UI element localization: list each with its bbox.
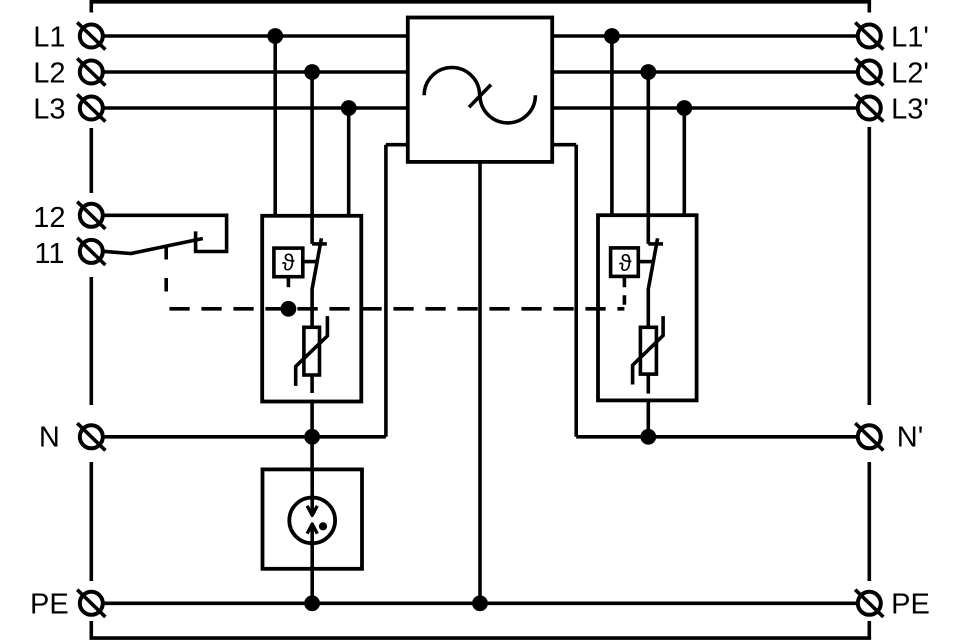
remote contact blade from 11 [104,239,202,254]
terminal PE right [855,590,883,617]
varistor RU2 body [640,327,656,374]
SPD block 2 box [598,215,697,400]
node L3 tap [341,100,357,116]
svg-text:PE: PE [30,589,69,621]
SPD1 sensor link to blade [303,260,317,264]
svg-text:L3': L3' [891,94,929,126]
SPD1 sensor dashed link down [287,277,291,309]
wire L1' tap down to SPD2 [610,36,614,215]
GDT F1 box [263,469,363,568]
GDT top lead [310,469,314,514]
wire L3 tap down to SPD1 [347,108,351,216]
terminal L2 [77,58,105,85]
node L2' tap [640,64,656,80]
svg-text:N': N' [897,422,923,454]
SPD1 contact blade [312,238,322,290]
varistor RU2 diagonal [633,316,664,384]
svg-text:11: 11 [34,238,64,270]
svg-text:L1': L1' [891,22,929,54]
wire L2 right [552,70,856,74]
wire U1 centre port down to PE [478,162,482,603]
SPD2 thermal contact tick [648,242,663,246]
frame left edge bottom stub [90,621,94,638]
svg-text:N: N [39,421,60,453]
wire L2' tap down through SPD2 to contact [646,72,650,244]
terminal 12 [77,202,105,229]
dashed linkage horizontal [166,307,624,311]
dashed linkage vertical [164,246,168,309]
frame right edge bottom stub [867,621,871,638]
remote contact 12 hook wire [104,215,226,251]
wire U1 right N port stub [552,143,576,147]
wire L1 left [104,34,408,38]
varistor RU1 diagonal [296,316,328,386]
wire U1 left N port stub [386,143,408,147]
node U1 on PE [472,595,488,611]
terminal 11 [77,238,105,265]
svg-text:L2': L2' [891,58,929,90]
svg-text:ϑ: ϑ [282,249,295,275]
svg-text:L2: L2 [33,58,65,90]
SPD2 sensor link to blade [638,260,653,264]
GDT top arrowhead [307,506,317,516]
frame right edge segment L3'-N' [867,127,871,405]
SPD2 sensor dashed link down [623,278,627,309]
frame left edge segment L3-12 [90,128,94,193]
wire L3 right [552,106,856,110]
SPD2 thermal sensor box [611,248,639,277]
wire N' row [576,435,856,439]
frame top edge [90,0,872,4]
wire PE row [104,601,856,605]
filter U1 wave symbol right arc [480,95,535,123]
wire U1 left N port down to N [384,145,388,437]
terminal L1 [77,22,105,49]
GDT bottom arrowhead [307,524,317,534]
node L3' tap [676,100,692,116]
node dashed junction [281,301,297,317]
node GDT on PE [304,595,320,611]
wire L2 tap down through SPD1 to contact [310,72,314,244]
wire L1 tap down to SPD1 [273,36,277,216]
terminal L3 [77,94,105,121]
frame right edge top stub [867,2,871,13]
terminal N [77,423,105,450]
frame bottom edge [90,636,872,640]
wire U1 right N port down to N' [574,145,578,437]
node L2 tap [304,64,320,80]
SPD block 1 box [262,216,361,402]
SPD1 thermal sensor box [274,248,303,277]
GDT circle [289,498,335,544]
SPD1 wire blade to varistor [310,290,314,327]
varistor RU1 body [304,327,320,375]
wire L3 left [104,106,408,110]
svg-text:L3: L3 [33,94,65,126]
wire L1 right [552,34,856,38]
filter U1 wave symbol slash [469,85,491,108]
node L1' tap [604,28,620,44]
wire L3' tap down to SPD2 [682,108,686,215]
filter U1 wave symbol left arc [424,67,479,95]
terminal L1' [855,22,883,49]
svg-text:ϑ: ϑ [619,250,632,276]
SPD2 contact blade [648,238,658,290]
wire L2 left [104,70,408,74]
node SPD1 on N [304,429,320,445]
GDT bottom lead [310,526,314,604]
filter unit U1 box [408,18,552,162]
SPD2 wire blade to varistor [646,290,650,327]
SPD1 wire box edge to GDT [310,400,314,470]
SPD1 wire varistor to box edge [310,375,314,393]
frame left edge segment top stub [90,2,94,13]
svg-text:PE: PE [891,589,930,621]
svg-text:L1: L1 [33,22,65,54]
SPD2 wire varistor to box edge [646,374,650,394]
SPD2 wire box edge to N' [646,400,650,437]
SPD1 thermal contact tick [312,242,327,246]
svg-text:12: 12 [33,202,65,234]
terminal N' [855,423,883,450]
terminal L2' [855,58,883,85]
node L1 tap [267,28,283,44]
terminal PE left [77,590,105,617]
frame right edge segment N'-PE [867,462,871,581]
GDT gas dot [319,522,327,530]
terminal L3' [855,94,883,121]
wire N row [104,435,386,439]
frame left edge segment N-PE [90,462,94,581]
node SPD2 on N' [640,429,656,445]
frame left edge segment 11-N [90,277,94,405]
